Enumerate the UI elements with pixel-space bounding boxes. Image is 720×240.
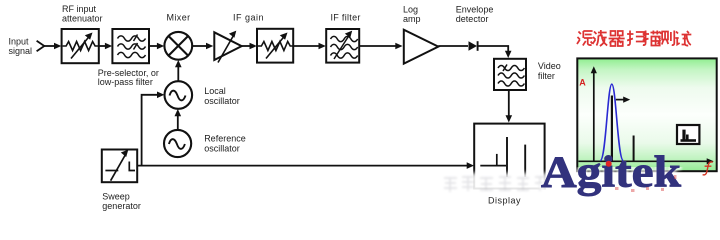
label Local oscillator xyxy=(204,86,240,106)
block video filter xyxy=(494,59,526,90)
arrowhead into local oscillator bottom xyxy=(175,109,182,116)
wire IF attenuator to IF filter xyxy=(293,43,326,50)
wire reference oscillator to local oscillator (up) xyxy=(177,116,179,130)
blue gaussian filter curve xyxy=(600,84,623,160)
wire mixer to IF gain amp xyxy=(192,43,213,50)
svg-text:signal: signal xyxy=(9,46,33,56)
char 波 xyxy=(593,30,608,46)
op-amp IF gain (variable gain amplifier triangle) xyxy=(214,32,241,62)
arrowhead of variable resistor (IF attenuator) xyxy=(280,33,288,40)
svg-text:Agitek: Agitek xyxy=(541,148,682,197)
svg-text:Mixer: Mixer xyxy=(167,12,191,22)
label f (red italic) xyxy=(703,162,713,175)
green panel plot frame xyxy=(577,58,716,171)
block pre-selector low-pass filter xyxy=(112,29,149,63)
svg-text:attenuator: attenuator xyxy=(62,14,103,24)
wire sweep riser to local oscillator xyxy=(142,95,159,166)
svg-text:Local: Local xyxy=(204,86,226,96)
arrowhead into mixer bottom xyxy=(175,60,182,67)
display trace small spike xyxy=(496,154,498,166)
sweep direction arrow xyxy=(616,97,630,103)
faint red small watermark text under Agitek xyxy=(615,175,677,192)
reference oscillator (circle with sine) xyxy=(164,130,191,157)
svg-text:Video: Video xyxy=(538,61,561,71)
svg-text:RF input: RF input xyxy=(62,4,97,14)
wire IF gain amp to IF attenuator xyxy=(242,43,257,50)
char 滤 xyxy=(577,31,593,46)
wire log amp to envelope detector xyxy=(438,45,468,47)
svg-text:Reference: Reference xyxy=(204,134,246,144)
label Video filter xyxy=(538,61,561,81)
arrowhead into local oscillator left xyxy=(157,92,164,99)
display trace tall spike 2 xyxy=(524,145,526,177)
arrowhead of variable resistor R (RF attenuator) xyxy=(85,33,93,40)
block IF filter (tunable filter box) xyxy=(326,29,359,63)
char 描 xyxy=(643,31,661,46)
display trace tall spike 1 xyxy=(506,137,508,177)
label Reference oscillator xyxy=(204,134,246,154)
label Sweep generator xyxy=(102,192,141,212)
svg-text:generator: generator xyxy=(102,201,141,211)
node Input signal label xyxy=(9,37,33,56)
input terminal connector xyxy=(37,41,45,51)
svg-text:A: A xyxy=(579,78,586,88)
wire sweep generator to display (long horizontal) xyxy=(137,165,468,167)
wire IF filter to log amp xyxy=(359,43,402,50)
label RF input attenuator xyxy=(62,4,103,24)
diode envelope detector xyxy=(469,41,478,51)
local oscillator (circle with sine) xyxy=(165,81,193,109)
arrowhead into display left xyxy=(467,162,474,169)
watermark red i-dot xyxy=(606,161,612,167)
op-amp log amp (triangle) xyxy=(404,30,439,64)
svg-text:low-pass filter: low-pass filter xyxy=(98,77,153,87)
block display (CRT box) xyxy=(474,124,544,189)
wire input to RF attenuator xyxy=(44,43,61,50)
char 器 xyxy=(609,31,625,46)
green panel title 滤波器扫描测试 (stroke approximation) xyxy=(577,30,691,46)
second spectrum spike xyxy=(633,136,635,161)
block sweep generator (box with ramp) xyxy=(102,150,137,183)
arrowhead x-axis xyxy=(707,158,714,164)
char 扫 xyxy=(627,31,644,46)
arrowhead into display top xyxy=(506,115,513,122)
wire pre-selector to mixer xyxy=(149,43,164,50)
svg-text:oscillator: oscillator xyxy=(204,96,240,106)
wire RF attenuator to pre-selector xyxy=(99,43,112,50)
svg-text:IF gain: IF gain xyxy=(233,12,264,22)
svg-text:filter: filter xyxy=(538,71,555,81)
char 测 xyxy=(658,31,675,46)
char 试 xyxy=(675,31,691,46)
x-axis (f axis) xyxy=(579,160,708,162)
wire local oscillator to mixer (up) xyxy=(177,67,179,82)
wire video filter to display (down) xyxy=(508,90,510,116)
svg-text:Sweep: Sweep xyxy=(102,192,130,202)
svg-text:oscillator: oscillator xyxy=(204,144,240,154)
label Pre-selector, or low-pass filter xyxy=(98,68,159,87)
display trace baseline xyxy=(480,165,506,167)
watermark Agitek white halo xyxy=(541,148,682,197)
arrowhead of sweep ramp xyxy=(121,150,129,157)
block IF variable attenuator (box with variable resistor) xyxy=(257,29,293,63)
arrowhead of IF gain variable arrow xyxy=(229,31,236,38)
arrowhead y-axis xyxy=(591,66,597,73)
label Envelope detector xyxy=(456,5,494,24)
arrowhead into video filter xyxy=(505,51,512,58)
faint watermark smudge background xyxy=(437,173,547,195)
spectrum spike inside curve xyxy=(611,96,613,161)
mixer (circle with X) xyxy=(164,32,192,60)
y-axis (A axis) xyxy=(593,73,595,162)
label Log amp xyxy=(403,5,421,24)
svg-text:detector: detector xyxy=(456,14,489,24)
wire envelope detector to video filter (corner down) xyxy=(478,46,509,51)
thumbnail icon box xyxy=(677,125,699,144)
arrowhead of IF filter tuning arrow xyxy=(345,31,352,38)
svg-text:Display: Display xyxy=(488,196,521,206)
faint watermark chinese characters (grayed) xyxy=(444,177,546,192)
block RF input attenuator (box with variable resistor) xyxy=(62,29,99,63)
svg-text:amp: amp xyxy=(403,14,421,24)
svg-text:IF filter: IF filter xyxy=(331,12,361,22)
